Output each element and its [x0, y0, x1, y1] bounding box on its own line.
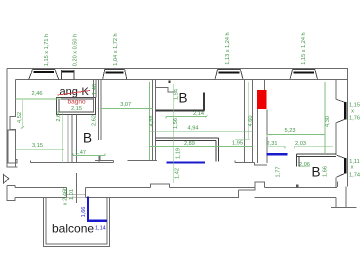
balcony door threshold [67, 195, 86, 197]
red strike over ang-K [58, 91, 91, 96]
dim 1,54 rotated [174, 84, 180, 183]
svg-text:B: B [83, 131, 92, 146]
blue line right room [267, 153, 288, 155]
svg-text:5,23: 5,23 [285, 128, 296, 134]
big wall pair left of right room [252, 80, 254, 164]
L-wall in B2 [155, 109, 204, 111]
south wall left cap [7, 186, 15, 201]
svg-text:1,15 x 1,71 h: 1,15 x 1,71 h [44, 34, 50, 66]
svg-text:4,30: 4,30 [325, 116, 331, 127]
svg-text:1,42: 1,42 [174, 168, 180, 179]
wall below bagno [67, 115, 69, 163]
room bottom segment 1 [95, 156, 114, 160]
svg-text:4,88: 4,88 [149, 116, 155, 127]
dim 2,31 [267, 141, 286, 149]
wall B1 / room 3,07 [97, 80, 99, 141]
left outer wall [6, 69, 8, 168]
dim 3,15 [16, 143, 65, 149]
right inner wall [336, 80, 338, 188]
dim 4,94 [150, 126, 253, 132]
svg-text:2,03: 2,03 [295, 141, 306, 147]
svg-text:1,14: 1,14 [95, 226, 106, 232]
corridor floor line [31, 160, 114, 162]
south wall inner step [239, 182, 255, 198]
svg-text:x: x [351, 109, 354, 115]
svg-text:1,47: 1,47 [75, 150, 86, 156]
left inner wall [10, 80, 16, 168]
svg-text:ang-K: ang-K [60, 86, 90, 98]
svg-text:bagno: bagno [68, 99, 86, 106]
svg-text:1,13 x 1,24 h: 1,13 x 1,24 h [225, 32, 231, 64]
inner top wall [16, 79, 348, 81]
blue balcony line [88, 197, 107, 221]
svg-text:3,15: 3,15 [32, 143, 43, 149]
window W6 right [337, 100, 347, 123]
left wall bottom cap [7, 166, 18, 168]
svg-text:4,94: 4,94 [188, 126, 199, 132]
window W7 right [337, 155, 347, 177]
window W2 small [62, 70, 75, 79]
south-east corner structure [331, 186, 357, 207]
wall segment at corridor right [235, 161, 267, 165]
right room bottom wall [297, 154, 336, 166]
blue line corridor [167, 161, 206, 163]
svg-text:1,77: 1,77 [275, 167, 281, 178]
dim 1,47 [73, 150, 105, 156]
red highlight rect [257, 90, 267, 109]
door mark [168, 81, 170, 84]
svg-text:1,54: 1,54 [174, 89, 180, 100]
svg-text:2,31: 2,31 [267, 141, 278, 147]
svg-text:4,52: 4,52 [17, 112, 23, 123]
bagno box outer [57, 97, 96, 114]
window W1 [29, 69, 59, 79]
north arrow triangle [4, 175, 10, 184]
svg-text:1,19: 1,19 [175, 148, 181, 159]
dim 4,52 rotated [17, 100, 24, 129]
wall right of bagno up [93, 80, 95, 113]
window W5 [290, 69, 318, 79]
svg-text:2,46: 2,46 [32, 91, 43, 97]
outer top wall [7, 68, 348, 70]
window W4 [215, 69, 243, 79]
svg-text:2,62: 2,62 [91, 115, 97, 126]
radiator left wall [8, 130, 17, 163]
dim 4,88 rotated [149, 82, 155, 160]
svg-text:0,20 x 0,50 h: 0,20 x 0,50 h [72, 34, 78, 66]
svg-text:1,66: 1,66 [322, 166, 328, 177]
south wall top edge [15, 182, 337, 188]
svg-text:balcone: balcone [52, 222, 94, 236]
dim 2,06 [299, 162, 310, 168]
svg-text:2,64: 2,64 [56, 111, 62, 122]
notch top of B2 [155, 87, 175, 92]
svg-text:1,56: 1,56 [173, 118, 179, 129]
dim 3,07 [101, 102, 152, 108]
balcony door line [76, 173, 78, 203]
svg-text:2,15: 2,15 [71, 106, 82, 112]
balcony outer [43, 198, 109, 247]
dim 2,14 [166, 111, 208, 119]
wall tick [296, 184, 298, 187]
svg-text:2,06: 2,06 [299, 162, 310, 168]
dim 4,30 rotated [325, 82, 331, 154]
svg-text:1,15 x 1,24 h: 1,15 x 1,24 h [301, 32, 307, 64]
svg-text:B: B [179, 91, 188, 106]
dim 2,89 [150, 140, 253, 147]
wall room3,07 / B2 [151, 80, 153, 162]
bagno box inner [59, 99, 94, 112]
svg-text:1,95: 1,95 [232, 140, 243, 146]
svg-text:1,76: 1,76 [349, 115, 360, 121]
svg-text:4,60: 4,60 [248, 116, 254, 127]
svg-text:x: x [351, 165, 354, 171]
dim 2,46 [16, 91, 62, 99]
room bottom segment 2 [128, 150, 158, 161]
svg-text:1,74: 1,74 [349, 173, 360, 179]
svg-text:1,46: 1,46 [92, 84, 98, 95]
right outer wall [347, 69, 349, 187]
svg-text:B: B [312, 165, 321, 180]
window W3 [103, 69, 127, 79]
svg-text:1,01: 1,01 [69, 189, 75, 200]
svg-text:1,04 x 1,72 h: 1,04 x 1,72 h [113, 33, 119, 65]
dim 2,03 [295, 141, 333, 149]
wall post below door [98, 155, 100, 162]
south wall bottom edge [15, 197, 336, 199]
dim 5,23 [267, 128, 325, 137]
wall x=241 [243, 80, 245, 163]
svg-text:3,07: 3,07 [120, 102, 131, 108]
svg-text:1,66: 1,66 [81, 207, 87, 218]
svg-text:x 2,46h: x 2,46h [62, 187, 68, 205]
balcony inner [46, 198, 107, 244]
svg-text:2,14: 2,14 [193, 111, 204, 117]
svg-text:2,89: 2,89 [184, 141, 195, 147]
dim 4,60 rotated [235, 82, 254, 140]
room 2,89 top wall [155, 138, 218, 162]
